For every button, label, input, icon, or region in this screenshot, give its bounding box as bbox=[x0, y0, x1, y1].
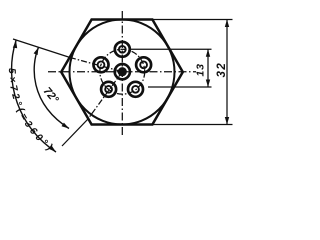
svg-text:13: 13 bbox=[195, 63, 207, 76]
radial line 162deg (extension for angle dim) bbox=[13, 39, 70, 58]
pitch circle bbox=[100, 49, 145, 94]
pin top bbox=[115, 42, 130, 57]
radial line 234deg (extension for angle dim) bbox=[88, 72, 122, 119]
pin upper-right bbox=[136, 57, 151, 72]
pin lower-right bbox=[128, 82, 143, 97]
extension line 32 top bbox=[152, 19, 232, 21]
pin upper-left bbox=[94, 57, 109, 72]
arrow outer arc bottom bbox=[49, 146, 56, 153]
pin lower-left bbox=[101, 82, 116, 97]
extension line 13 bottom bbox=[148, 86, 212, 88]
arrow inner arc top bbox=[34, 47, 39, 55]
angle arc inner (72deg) bbox=[34, 47, 69, 128]
vertical centerline bbox=[121, 11, 123, 137]
hexagon outline bbox=[61, 20, 183, 125]
dimension line 13 bbox=[207, 49, 209, 87]
extension line 32 bottom bbox=[152, 124, 232, 126]
arrow outer arc top bbox=[13, 41, 17, 49]
dimension line 32 bbox=[226, 20, 228, 125]
svg-text:32: 32 bbox=[216, 62, 228, 78]
extension line 13 top bbox=[131, 48, 212, 50]
inscribed chamfer circle bbox=[70, 20, 175, 125]
horizontal centerline bbox=[48, 71, 196, 73]
angle arc outer (5x72) bbox=[12, 41, 56, 153]
arrow inner arc bottom bbox=[62, 123, 70, 129]
pin center bbox=[115, 64, 130, 79]
